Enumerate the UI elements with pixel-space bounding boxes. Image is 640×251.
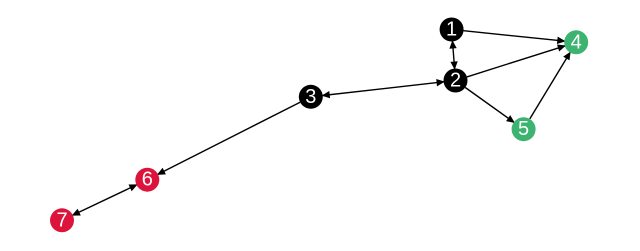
node 2 bbox=[444, 69, 468, 93]
node 6 bbox=[135, 168, 159, 192]
wire: edge 1-2 (bidirectional) bbox=[450, 42, 457, 69]
wire: edge 2-4 bbox=[467, 45, 565, 77]
wire: edge 3-6 bbox=[158, 102, 300, 174]
wire: edge 2-5 bbox=[465, 88, 514, 123]
svg-text:3: 3 bbox=[305, 86, 316, 108]
node 4 bbox=[564, 30, 588, 54]
wire: edge 5-4 bbox=[530, 53, 570, 119]
node 7 bbox=[50, 208, 74, 232]
node 5 bbox=[512, 117, 536, 141]
wire: edge 6-7 (bidirectional) bbox=[73, 185, 137, 215]
svg-text:2: 2 bbox=[450, 70, 461, 92]
svg-text:6: 6 bbox=[142, 169, 153, 191]
svg-text:1: 1 bbox=[446, 19, 457, 41]
svg-text:7: 7 bbox=[56, 209, 67, 231]
svg-text:4: 4 bbox=[571, 31, 582, 53]
wire: edge 1-4 bbox=[464, 31, 565, 44]
node 3 bbox=[299, 85, 323, 109]
svg-text:5: 5 bbox=[518, 118, 529, 140]
node 1 bbox=[440, 18, 464, 42]
wire: edge 2-3 (bidirectional) bbox=[323, 80, 444, 98]
